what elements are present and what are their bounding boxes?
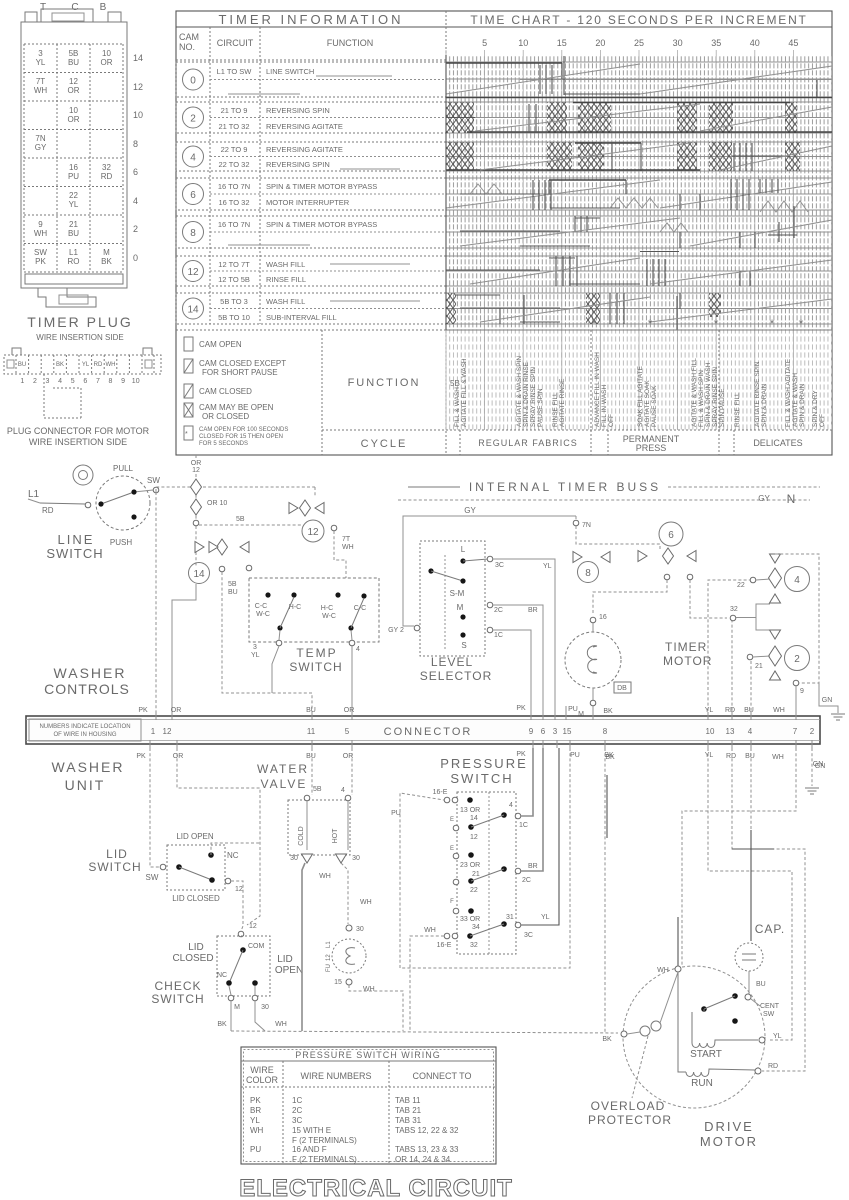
svg-text:L1: L1	[326, 941, 332, 948]
timer plug body outline	[21, 9, 127, 307]
svg-text:6: 6	[190, 190, 196, 201]
svg-text:3C: 3C	[495, 562, 504, 569]
svg-text:SPRAY RINSE SPIN: SPRAY RINSE SPIN	[530, 367, 537, 427]
svg-text:OFF: OFF	[819, 414, 826, 427]
svg-text:DRIVE: DRIVE	[704, 1119, 754, 1134]
svg-text:22: 22	[737, 582, 745, 589]
svg-text:L1: L1	[28, 489, 40, 500]
fuse assembly	[326, 925, 375, 993]
svg-text:OR 10: OR 10	[207, 500, 227, 507]
svg-text:5: 5	[345, 727, 350, 736]
svg-text:5: 5	[482, 38, 487, 48]
timer plug pin grid	[24, 44, 123, 272]
svg-text:NUMBERS INDICATE LOCATION: NUMBERS INDICATE LOCATION	[39, 724, 130, 730]
svg-text:OR 14, 24 & 34: OR 14, 24 & 34	[395, 1155, 451, 1164]
cam 4 chart features	[446, 142, 832, 171]
drive motor	[623, 966, 782, 1149]
timer plug top labels T C B	[40, 2, 107, 13]
svg-text:RINSE FILL: RINSE FILL	[734, 392, 741, 427]
svg-text:FILL & WASH: FILL & WASH	[454, 387, 461, 427]
svg-text:12: 12	[249, 923, 257, 930]
svg-text:CAM: CAM	[179, 32, 199, 42]
svg-text:15: 15	[557, 38, 567, 48]
svg-text:WIRE INSERTION SIDE: WIRE INSERTION SIDE	[29, 437, 127, 447]
wire 7T to temp switch	[334, 531, 346, 578]
svg-text:7N: 7N	[35, 134, 45, 143]
svg-text:F (2 TERMINALS): F (2 TERMINALS)	[292, 1155, 357, 1164]
svg-text:AGITATE SOAK: AGITATE SOAK	[644, 380, 651, 427]
legend and cycle rows	[176, 330, 832, 455]
overload protector	[588, 972, 678, 1127]
svg-text:AGITATE & WASH FILL: AGITATE & WASH FILL	[691, 358, 698, 427]
svg-text:B: B	[100, 2, 107, 13]
svg-text:WIRE INSERTION SIDE: WIRE INSERTION SIDE	[36, 333, 123, 342]
svg-text:BU: BU	[745, 753, 755, 760]
svg-text:3C: 3C	[524, 932, 533, 939]
plug connector strip body	[4, 348, 161, 418]
svg-text:RD: RD	[726, 753, 736, 760]
check switch	[151, 923, 303, 1011]
svg-text:PU: PU	[570, 752, 580, 759]
svg-text:REVERSING SPIN: REVERSING SPIN	[266, 160, 330, 169]
svg-text:ADVANCE FILL IN WASH: ADVANCE FILL IN WASH	[594, 352, 601, 427]
svg-text:DELICATES: DELICATES	[753, 438, 802, 448]
long WH wire to overload	[231, 1021, 618, 1033]
svg-text:9: 9	[121, 378, 125, 385]
svg-text:SPIN & TIMER MOTOR BYPASS: SPIN & TIMER MOTOR BYPASS	[266, 182, 377, 191]
svg-text:TAB 21: TAB 21	[395, 1106, 422, 1115]
svg-text:YL: YL	[82, 362, 90, 368]
chart bottom border of band area	[446, 329, 832, 331]
svg-text:YL: YL	[773, 1033, 782, 1040]
svg-text:REVERSING SPIN: REVERSING SPIN	[266, 106, 330, 115]
wire 7N to cam clusters	[576, 526, 660, 549]
cam 8 row	[176, 216, 446, 248]
svg-text:5B TO 3: 5B TO 3	[220, 297, 248, 306]
timer information table	[176, 11, 832, 455]
legend symbol cam open 100 seconds	[184, 426, 288, 447]
svg-text:5B: 5B	[69, 49, 79, 58]
svg-text:WH: WH	[772, 754, 784, 761]
level selector	[420, 541, 504, 683]
svg-text:32: 32	[102, 163, 111, 172]
svg-text:REVERSING AGITATE: REVERSING AGITATE	[266, 122, 343, 131]
svg-text:SPRAY RINSE SPIN: SPRAY RINSE SPIN	[712, 367, 719, 427]
svg-text:M: M	[234, 1004, 240, 1011]
wire L1 to line switch	[40, 503, 85, 504]
svg-text:YL: YL	[543, 563, 552, 570]
wire hot valve to fuse	[341, 863, 372, 924]
wire BK to overload	[605, 748, 615, 1032]
svg-text:WIRE: WIRE	[250, 1065, 274, 1075]
svg-text:GN: GN	[822, 697, 833, 704]
svg-text:10: 10	[69, 106, 78, 115]
svg-text:2C: 2C	[522, 877, 531, 884]
svg-text:16 TO 32: 16 TO 32	[219, 198, 250, 207]
svg-text:WH: WH	[657, 967, 669, 974]
cam 14 row	[176, 293, 446, 324]
svg-text:12 TO 7T: 12 TO 7T	[218, 260, 250, 269]
wire lid 12 to check switch	[231, 881, 243, 931]
cam 0 chart features	[446, 56, 832, 98]
svg-text:RD: RD	[101, 172, 113, 181]
svg-text:M: M	[457, 603, 464, 612]
svg-text:PAUSE SPIN: PAUSE SPIN	[537, 388, 544, 427]
svg-text:30: 30	[356, 926, 364, 933]
svg-text:30: 30	[673, 38, 683, 48]
wire 1C PK to connector	[493, 630, 531, 716]
svg-text:RINSE FILL: RINSE FILL	[266, 275, 306, 284]
svg-text:BK: BK	[603, 708, 613, 715]
wire OR cam14 to connector	[172, 584, 196, 716]
svg-text:PU: PU	[568, 706, 578, 713]
svg-text:SPIN & DRAIN: SPIN & DRAIN	[761, 383, 768, 427]
svg-text:2C: 2C	[292, 1106, 302, 1115]
svg-text:YL: YL	[251, 652, 260, 659]
svg-text:PUSH: PUSH	[110, 538, 132, 547]
svg-text:12: 12	[192, 467, 200, 474]
svg-text:WH: WH	[250, 1126, 264, 1135]
svg-text:WASH FILL: WASH FILL	[266, 260, 305, 269]
svg-text:20: 20	[595, 38, 605, 48]
internal timer buss	[398, 480, 820, 506]
svg-text:21: 21	[69, 220, 78, 229]
wire temp 4 OR to connector	[351, 646, 353, 716]
wire OR to water valve	[351, 748, 353, 795]
svg-text:0: 0	[190, 76, 196, 87]
capacitor	[735, 922, 785, 994]
cam 6 row	[176, 178, 446, 210]
svg-text:2: 2	[810, 727, 815, 736]
chart dashed grid texture	[446, 55, 832, 330]
svg-text:8: 8	[603, 727, 608, 736]
svg-text:RUN: RUN	[691, 1078, 713, 1089]
svg-text:SELECTOR: SELECTOR	[420, 669, 492, 683]
svg-text:BU: BU	[68, 58, 79, 67]
svg-text:RD: RD	[768, 1063, 778, 1070]
chart band gridlines	[446, 62, 832, 324]
svg-text:CAM MAY BE OPEN: CAM MAY BE OPEN	[199, 403, 274, 412]
svg-text:25: 25	[634, 38, 644, 48]
cam chain OR 12	[189, 455, 252, 596]
svg-text:12: 12	[187, 267, 199, 278]
start winding	[690, 1009, 782, 1060]
svg-text:L1 TO SW: L1 TO SW	[217, 67, 253, 76]
wire 21 to connector BU	[750, 660, 751, 716]
svg-text:22 TO 9: 22 TO 9	[221, 145, 248, 154]
svg-text:23 OR: 23 OR	[460, 862, 480, 869]
svg-text:LID OPEN: LID OPEN	[176, 832, 214, 841]
svg-text:6: 6	[83, 378, 87, 385]
svg-text:22: 22	[470, 887, 478, 894]
svg-text:3: 3	[38, 49, 43, 58]
svg-text:7: 7	[793, 727, 798, 736]
svg-text:BK: BK	[56, 362, 64, 368]
svg-text:TABS 13, 23 & 33: TABS 13, 23 & 33	[395, 1145, 459, 1154]
svg-text:SPIN & DRAIN: SPIN & DRAIN	[799, 383, 806, 427]
svg-text:2: 2	[33, 378, 37, 385]
svg-text:PU: PU	[391, 810, 401, 817]
function cell	[348, 377, 460, 389]
svg-text:FOR 5 SECONDS: FOR 5 SECONDS	[199, 441, 248, 447]
svg-text:TAB 31: TAB 31	[395, 1116, 422, 1125]
svg-text:WIRE NUMBERS: WIRE NUMBERS	[300, 1071, 371, 1081]
svg-text:BU: BU	[68, 229, 79, 238]
wire 2C BR up	[521, 748, 543, 871]
wire 5B to cam 12	[199, 487, 324, 525]
svg-text:WH: WH	[319, 873, 331, 880]
svg-text:E: E	[450, 846, 454, 852]
svg-text:ELECTRICAL CIRCUIT: ELECTRICAL CIRCUIT	[239, 1175, 513, 1200]
svg-text:12: 12	[307, 527, 319, 538]
svg-text:1: 1	[151, 727, 156, 736]
cam 0 indicator on line switch	[73, 465, 93, 485]
svg-text:4: 4	[748, 727, 753, 736]
svg-text:AGITATE RINSE: AGITATE RINSE	[559, 378, 566, 427]
wire 9 to connector WH	[795, 686, 797, 716]
svg-text:GY: GY	[758, 494, 770, 503]
cam 2 chart features	[446, 102, 832, 133]
svg-text:SWITCH: SWITCH	[289, 660, 342, 674]
svg-text:12: 12	[326, 954, 332, 961]
svg-text:12: 12	[470, 834, 478, 841]
wire cold valve down	[302, 863, 305, 1031]
svg-text:TIMER INFORMATION: TIMER INFORMATION	[218, 12, 403, 27]
cam 12 row	[176, 256, 446, 286]
wire cam6 left terminal to timer motor 16	[593, 580, 667, 614]
connector wire ticks	[150, 706, 812, 748]
svg-text:N: N	[787, 492, 796, 506]
svg-text:*: *	[185, 431, 188, 438]
svg-text:W-C: W-C	[322, 613, 336, 620]
svg-text:15 WITH E: 15 WITH E	[292, 1126, 331, 1135]
lower ground GN	[805, 748, 825, 794]
svg-text:OR: OR	[68, 115, 80, 124]
svg-text:*: *	[714, 318, 719, 330]
svg-text:16: 16	[599, 614, 607, 621]
svg-text:14: 14	[470, 815, 478, 822]
svg-text:TABS 12, 22 & 32: TABS 12, 22 & 32	[395, 1126, 459, 1135]
svg-text:4: 4	[509, 802, 513, 809]
wire 2C BR to connector	[493, 605, 543, 716]
wire RD right loop	[732, 748, 805, 1071]
svg-text:WASHER: WASHER	[52, 759, 125, 775]
wire 5B BU to connector	[222, 572, 312, 716]
svg-text:S-M: S-M	[450, 589, 465, 598]
wire GY loop to level selector	[388, 506, 576, 634]
cam 2 row	[176, 102, 446, 133]
svg-text:RINSE FILL: RINSE FILL	[552, 392, 559, 427]
cam 4 row	[176, 142, 446, 171]
svg-text:REVERSING AGITATE: REVERSING AGITATE	[266, 145, 343, 154]
svg-text:PU: PU	[68, 172, 79, 181]
svg-text:WH: WH	[106, 362, 116, 368]
wire SW to bus	[156, 487, 315, 492]
svg-text:MOTOR: MOTOR	[663, 654, 712, 668]
svg-text:SPIN PAUSE: SPIN PAUSE	[719, 388, 726, 427]
cam 4 cluster	[737, 554, 810, 603]
svg-text:OVERLOAD: OVERLOAD	[591, 1099, 666, 1113]
svg-text:SW: SW	[147, 476, 160, 485]
svg-text:4: 4	[356, 646, 360, 653]
svg-text:OR: OR	[173, 753, 184, 760]
svg-text:6: 6	[541, 727, 546, 736]
svg-text:BU: BU	[756, 981, 766, 988]
svg-text:PULL: PULL	[113, 464, 134, 473]
run winding	[678, 972, 778, 1089]
svg-text:15: 15	[563, 727, 572, 736]
svg-text:22: 22	[69, 191, 78, 200]
svg-text:S: S	[461, 641, 466, 650]
svg-text:6: 6	[668, 530, 674, 541]
svg-text:CIRCUIT: CIRCUIT	[217, 38, 254, 48]
svg-text:START: START	[690, 1049, 722, 1060]
svg-text:0: 0	[133, 253, 138, 263]
timer plug cell labels	[34, 49, 113, 266]
connector note box	[29, 719, 141, 741]
svg-text:COLD: COLD	[298, 826, 305, 845]
svg-text:WH: WH	[342, 544, 354, 551]
svg-text:2: 2	[794, 654, 800, 665]
svg-text:CYCLE: CYCLE	[361, 438, 408, 450]
svg-text:33 OR: 33 OR	[460, 916, 480, 923]
svg-text:16-E: 16-E	[433, 789, 448, 796]
svg-text:1C: 1C	[519, 822, 528, 829]
wire PK line switch to connector	[155, 492, 157, 716]
svg-text:21: 21	[472, 871, 480, 878]
svg-text:WH: WH	[363, 986, 375, 993]
svg-text:AGITATE RINSE SPIN: AGITATE RINSE SPIN	[754, 361, 761, 427]
svg-text:PK: PK	[136, 753, 146, 760]
svg-text:GY 2: GY 2	[388, 627, 404, 634]
svg-text:BR: BR	[528, 607, 538, 614]
cam 0 row	[176, 62, 446, 97]
svg-text:4: 4	[58, 378, 62, 385]
svg-text:*: *	[770, 318, 775, 330]
pressure switch group 2	[450, 846, 538, 894]
wire cam6 to 32 node	[690, 580, 727, 618]
svg-text:14: 14	[193, 569, 205, 580]
wire labels above connector	[138, 705, 785, 715]
svg-text:12: 12	[235, 886, 243, 893]
svg-text:WH: WH	[773, 707, 785, 714]
timer motor	[565, 614, 712, 718]
wire WH pressure down	[410, 936, 444, 1032]
svg-text:5B: 5B	[228, 581, 237, 588]
svg-text:8: 8	[585, 568, 591, 579]
svg-text:WASHER: WASHER	[54, 665, 127, 681]
svg-text:34: 34	[472, 924, 480, 931]
svg-text:WH: WH	[34, 86, 48, 95]
svg-text:NC: NC	[217, 972, 227, 979]
svg-text:HOT: HOT	[332, 828, 339, 844]
svg-text:CLOSED FOR 15 THEN OPEN: CLOSED FOR 15 THEN OPEN	[199, 434, 283, 440]
legend symbol cam may be open or closed	[184, 403, 274, 421]
svg-text:5B: 5B	[450, 379, 460, 388]
cam 14 circle	[189, 563, 210, 584]
wire 32 to connector RD	[731, 621, 733, 716]
svg-text:8: 8	[190, 228, 196, 239]
svg-text:OF WIRE IN HOUSING: OF WIRE IN HOUSING	[54, 732, 117, 738]
wire 30 check switch down	[255, 1001, 265, 1031]
svg-text:PK: PK	[250, 1096, 261, 1105]
svg-text:3: 3	[46, 378, 50, 385]
svg-text:CAM CLOSED: CAM CLOSED	[199, 387, 252, 396]
line switch contacts	[101, 492, 134, 504]
cam 12 circle	[302, 520, 354, 551]
svg-text:AGITATE & WASH: AGITATE & WASH	[792, 373, 799, 427]
svg-text:PK: PK	[138, 707, 148, 714]
svg-text:YL: YL	[250, 1116, 260, 1125]
svg-text:YL: YL	[705, 707, 714, 714]
svg-text:C: C	[71, 2, 78, 13]
svg-text:OR: OR	[68, 86, 80, 95]
svg-text:5B: 5B	[236, 516, 245, 523]
svg-text:E: E	[450, 817, 454, 823]
svg-text:14: 14	[133, 53, 143, 63]
svg-text:2: 2	[190, 114, 196, 125]
svg-text:3: 3	[553, 727, 558, 736]
svg-text:CONTROLS: CONTROLS	[44, 681, 130, 697]
svg-text:12: 12	[163, 727, 172, 736]
svg-text:SUB-INTERVAL FILL: SUB-INTERVAL FILL	[266, 313, 337, 322]
chart tick labels	[482, 38, 798, 48]
svg-text:BK: BK	[602, 1036, 612, 1043]
table outer frame	[176, 11, 832, 455]
svg-text:BU: BU	[744, 707, 754, 714]
svg-text:14: 14	[187, 305, 199, 316]
svg-text:MOTOR: MOTOR	[700, 1134, 758, 1149]
wire M BK check switch down	[217, 1001, 231, 1031]
svg-text:WATER: WATER	[257, 762, 309, 776]
svg-text:PK: PK	[35, 257, 46, 266]
cam bracket 32	[730, 604, 770, 630]
wire 3C YL to connector	[493, 559, 555, 716]
svg-text:45: 45	[788, 38, 798, 48]
washer controls caption	[44, 665, 130, 697]
svg-text:16 AND F: 16 AND F	[292, 1145, 327, 1154]
plug connector wire labels	[18, 362, 116, 368]
upper ground GN	[819, 683, 845, 720]
svg-text:OFF: OFF	[608, 414, 615, 427]
svg-text:1: 1	[20, 378, 24, 385]
svg-text:YL: YL	[69, 200, 79, 209]
svg-text:YL: YL	[705, 752, 714, 759]
svg-text:LID CLOSED: LID CLOSED	[172, 894, 220, 903]
svg-text:4: 4	[133, 196, 138, 206]
wire PK to lid switch	[150, 748, 160, 867]
svg-text:SWITCH: SWITCH	[88, 860, 141, 874]
svg-text:21 TO 9: 21 TO 9	[221, 106, 248, 115]
svg-text:WH: WH	[424, 927, 436, 934]
svg-text:CAM CLOSED EXCEPT: CAM CLOSED EXCEPT	[199, 359, 286, 368]
svg-text:TEMP: TEMP	[296, 646, 337, 660]
svg-text:BR: BR	[250, 1106, 261, 1115]
svg-text:AGITATE FILL & WASH: AGITATE FILL & WASH	[461, 358, 468, 427]
cam 8 chart features	[460, 206, 832, 248]
plug connector caption	[7, 426, 150, 447]
svg-text:SOAK FILL AGITATE: SOAK FILL AGITATE	[637, 365, 644, 427]
svg-text:8: 8	[133, 139, 138, 149]
svg-text:PAUSE SOAK: PAUSE SOAK	[651, 385, 658, 427]
svg-text:FUNCTION: FUNCTION	[327, 38, 374, 48]
svg-text:5B TO 10: 5B TO 10	[218, 313, 250, 322]
node WH	[675, 966, 681, 972]
cycle row	[322, 330, 832, 455]
svg-text:3: 3	[253, 644, 257, 651]
svg-text:30: 30	[352, 855, 360, 862]
svg-text:9: 9	[800, 688, 804, 695]
